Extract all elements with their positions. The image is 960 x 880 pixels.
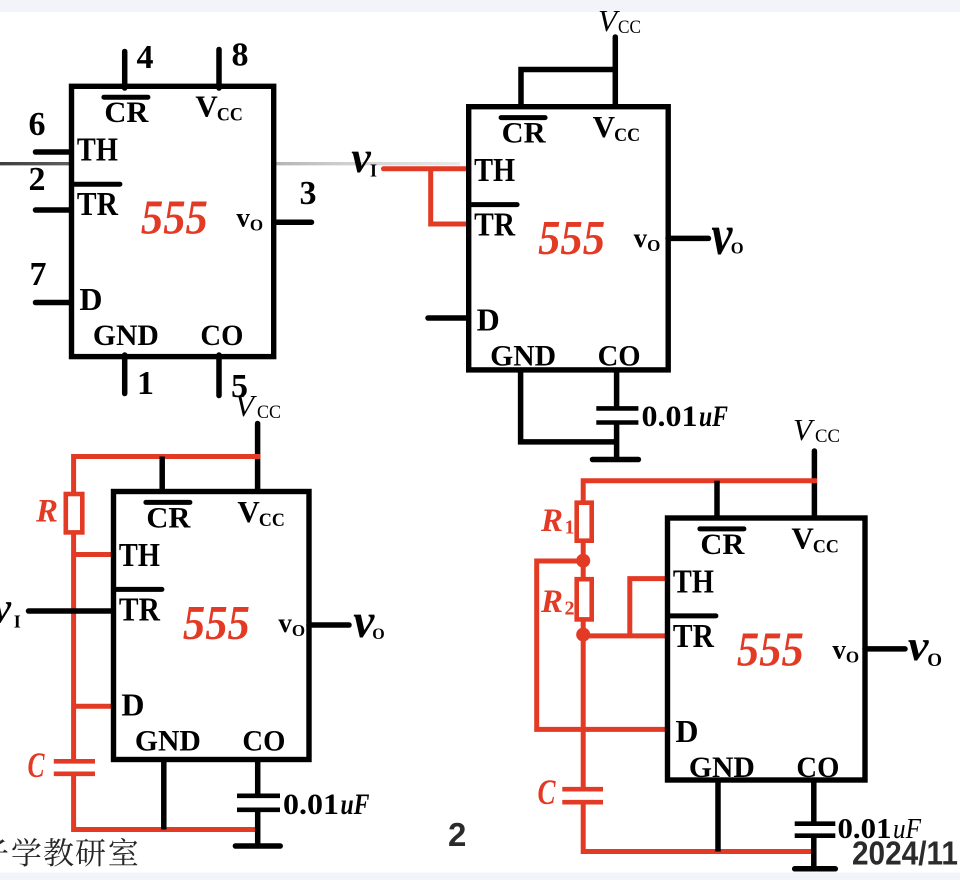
wire pin 6 stub U1 [36, 149, 72, 155]
svg-text:V: V [593, 109, 616, 144]
svg-text:TR: TR [673, 618, 714, 655]
wire gray callout line [0, 162, 460, 165]
pin label TR overline U2 [472, 202, 517, 207]
wire CO stub circuit 4 [811, 778, 817, 824]
input label vI circuit 2 [351, 133, 377, 182]
svg-text:C: C [538, 772, 557, 812]
svg-text:O: O [292, 621, 305, 640]
svg-text:TH: TH [673, 563, 714, 600]
wire pin 4 stub U1 [122, 52, 128, 89]
svg-text:555: 555 [538, 210, 605, 265]
resistor R circuit 3 [66, 494, 83, 532]
output label vO circuit 3 [353, 593, 385, 648]
svg-text:CR: CR [700, 528, 744, 561]
pin label TR U1 [77, 186, 118, 223]
pin label TH U2 [474, 152, 515, 189]
pin label GND U4 [689, 751, 755, 784]
wire pin 5 stub U1 [216, 355, 222, 396]
pin label CO U2 [598, 340, 641, 373]
value label 0.01uF circuit 2 [642, 400, 729, 433]
svg-text:GND: GND [135, 724, 201, 757]
pin label CR overline U1 [104, 95, 148, 100]
pin label TH U1 [77, 132, 118, 169]
svg-text:CO: CO [796, 751, 839, 784]
svg-text:V: V [195, 89, 218, 124]
svg-text:CR: CR [502, 117, 546, 150]
pin number 6 U1 [29, 106, 46, 143]
wire red R to C node circuit 3 [71, 532, 76, 761]
pin label D U1 [79, 281, 102, 317]
wire red TH input circuit 2 [384, 166, 469, 171]
wire GND down-left circuit 2 [521, 368, 617, 442]
power label VCC circuit 3 [235, 388, 281, 423]
svg-text:CC: CC [614, 125, 640, 146]
svg-text:V: V [235, 388, 257, 423]
svg-text:V: V [793, 412, 815, 447]
pin number 3 U1 [300, 175, 317, 212]
wire red node to C circuit 4 [581, 619, 586, 789]
pin label TH U3 [119, 537, 160, 574]
IC label 555 U4 [737, 621, 804, 676]
wire pin 7 stub U1 [36, 300, 72, 306]
resistor label R circuit 3 [35, 494, 58, 530]
wire VCC vertical circuit 3 [255, 424, 261, 495]
capacitor C circuit 4 [562, 789, 603, 802]
pin label vO U4 [832, 634, 859, 666]
input label vI circuit 3 [0, 584, 21, 633]
svg-text:O: O [731, 239, 744, 258]
pin label vO U3 [278, 608, 305, 640]
pin label TR overline U4 [670, 613, 716, 618]
wire output stub circuit 2 [668, 236, 709, 242]
pin label GND U2 [490, 340, 556, 373]
wire red node to D circuit 4 [537, 561, 667, 729]
wire VCC vertical circuit 4 [812, 451, 818, 520]
pin number 1 U1 [137, 365, 154, 402]
pin label VCC U1 [195, 89, 243, 126]
output label vO circuit 4 [908, 623, 942, 671]
svg-text:O: O [372, 626, 384, 643]
wire output stub circuit 4 [865, 646, 905, 652]
svg-text:V: V [237, 494, 260, 529]
pin label TR overline U3 [116, 587, 161, 592]
wire red D branch circuit 3 [74, 704, 113, 709]
pin label VCC U4 [791, 520, 839, 557]
junction node R1-R2 circuit 4 [576, 554, 590, 568]
wire output stub circuit 3 [309, 622, 349, 628]
wire red TH branch circuit 4 [630, 579, 667, 636]
svg-text:D: D [477, 302, 500, 338]
IC label 555 U3 [183, 595, 250, 650]
svg-text:V: V [598, 3, 620, 38]
pin label TR U2 [474, 207, 515, 244]
pin label CO U3 [242, 724, 285, 757]
svg-text:CO: CO [242, 724, 285, 757]
wire red TH branch circuit 3 [74, 552, 113, 557]
svg-text:v: v [236, 203, 250, 233]
svg-text:v: v [908, 623, 930, 670]
pin number 2 U1 [29, 161, 46, 198]
op-amp 555 IC box U2 [469, 107, 669, 370]
svg-text:555: 555 [141, 190, 208, 245]
svg-text:R: R [540, 584, 563, 620]
svg-text:2: 2 [565, 598, 575, 620]
pin label CR overline U2 [501, 115, 545, 120]
svg-text:O: O [647, 236, 660, 255]
wire GND stub circuit 4 [715, 778, 721, 852]
pin label TR overline U1 [74, 182, 120, 187]
ground circuit 4 [795, 866, 836, 872]
svg-text:TH: TH [119, 537, 160, 574]
wire VCC-CR bridge circuit 2 [521, 70, 615, 110]
pin label vO U1 [236, 203, 263, 235]
svg-text:O: O [846, 647, 859, 666]
svg-text:CC: CC [259, 510, 285, 531]
pin label TH U4 [673, 563, 714, 600]
pin label D U4 [675, 713, 698, 749]
op-amp 555 IC box U4 [668, 518, 866, 780]
svg-text:v: v [711, 204, 733, 267]
svg-text:3: 3 [300, 175, 317, 212]
svg-text:555: 555 [737, 621, 804, 676]
footer date 2024/11 [852, 835, 958, 872]
svg-text:8: 8 [232, 37, 249, 74]
op-amp 555 IC box U1 [72, 86, 274, 356]
pin label D U2 [477, 302, 500, 338]
resistor R2 circuit 4 [577, 579, 592, 619]
ground circuit 3 [235, 843, 280, 849]
power label VCC circuit 2 [598, 3, 641, 38]
wire CO stub circuit 3 [255, 757, 261, 796]
pin number 7 U1 [30, 256, 47, 293]
wire red C to ground circuit 3 [74, 774, 260, 830]
svg-text:6: 6 [29, 106, 46, 143]
svg-text:CC: CC [813, 536, 839, 557]
resistor R1 circuit 4 [577, 503, 592, 541]
svg-text:I: I [14, 612, 21, 632]
svg-text:TR: TR [77, 186, 118, 223]
svg-text:R: R [540, 503, 563, 539]
top page band [0, 0, 960, 12]
svg-text:0.01: 0.01 [642, 400, 698, 433]
pin number 4 U1 [137, 39, 154, 76]
pin label vO U2 [634, 223, 661, 255]
svg-text:D: D [121, 686, 144, 722]
pin label CR overline U4 [700, 526, 744, 531]
capacitor C circuit 3 [54, 761, 95, 774]
svg-text:CO: CO [598, 340, 641, 373]
svg-text:TH: TH [77, 132, 118, 169]
svg-text:CC: CC [257, 403, 281, 423]
svg-text:R: R [35, 494, 58, 530]
wire pin 3 stub U1 [274, 219, 312, 225]
output label vO circuit 2 [711, 204, 743, 267]
wire red VCC tap circuit 4 [583, 481, 817, 503]
svg-text:GND: GND [490, 340, 556, 373]
pin label VCC U2 [593, 109, 641, 146]
svg-text:7: 7 [30, 256, 47, 293]
svg-text:4: 4 [137, 39, 154, 76]
wire red C to ground circuit 4 [583, 802, 816, 851]
capacitor 0.01uF circuit 3 [237, 796, 280, 846]
pin label CR overline U3 [146, 500, 190, 505]
value label 0.01uF circuit 4 [838, 813, 922, 845]
capacitor label C circuit 4 [538, 772, 557, 812]
wire pin 2 stub U1 [36, 207, 72, 213]
pin number 8 U1 [232, 37, 249, 74]
capacitor label C circuit 3 [28, 745, 46, 785]
footer Chinese department text [0, 838, 137, 867]
ground circuit 2 [593, 457, 639, 463]
wire VCC vertical circuit 2 [613, 37, 619, 109]
pin label D U3 [121, 686, 144, 722]
pin label CO U4 [796, 751, 839, 784]
wire pin 1 stub U1 [122, 355, 128, 394]
wire vI input circuit 3 [29, 608, 114, 614]
svg-text:O: O [927, 650, 942, 671]
wire GND stub circuit 3 [161, 757, 167, 830]
IC label 555 U1 [141, 190, 208, 245]
svg-text:C: C [28, 745, 46, 785]
wire red R1-R2 circuit 4 [581, 541, 586, 580]
resistor label R1 circuit 4 [540, 503, 575, 539]
svg-text:CC: CC [217, 105, 243, 126]
svg-text:GND: GND [93, 319, 159, 352]
wire CR stub circuit 3 [159, 457, 165, 495]
pin label GND U3 [135, 724, 201, 757]
value label 0.01uF circuit 3 [283, 788, 370, 821]
pin label CO U1 [200, 319, 243, 352]
svg-text:CC: CC [618, 18, 641, 38]
svg-text:2: 2 [29, 161, 46, 198]
svg-text:v: v [634, 223, 648, 253]
svg-text:TH: TH [474, 152, 515, 189]
svg-text:2: 2 [448, 816, 466, 853]
svg-text:D: D [675, 713, 698, 749]
svg-text:D: D [79, 281, 102, 317]
svg-text:CO: CO [200, 319, 243, 352]
resistor label R2 circuit 4 [540, 584, 575, 620]
capacitor 0.01uF circuit 4 [795, 824, 836, 869]
pin label CR U3 [146, 501, 190, 534]
pin label CR U1 [104, 96, 148, 129]
capacitor 0.01uF circuit 2 [596, 408, 638, 459]
IC label 555 U2 [538, 210, 605, 265]
wire CO stub circuit 2 [614, 368, 620, 408]
junction node R2-C circuit 4 [576, 628, 590, 642]
svg-text:uF: uF [341, 788, 370, 821]
svg-text:TR: TR [119, 591, 160, 628]
svg-text:555: 555 [183, 595, 250, 650]
pin label VCC U3 [237, 494, 285, 531]
svg-text:TR: TR [474, 207, 515, 244]
wire D stub circuit 2 [428, 315, 468, 321]
svg-text:2024/11: 2024/11 [852, 835, 958, 872]
svg-text:v: v [0, 584, 11, 633]
svg-text:1: 1 [565, 517, 575, 539]
svg-text:CR: CR [146, 501, 190, 534]
svg-text:0.01: 0.01 [283, 788, 339, 821]
power label VCC circuit 4 [793, 412, 840, 447]
svg-text:GND: GND [689, 751, 755, 784]
svg-text:O: O [250, 216, 263, 235]
pin label GND U1 [93, 319, 159, 352]
wire pin 8 stub U1 [216, 50, 222, 89]
pin label CR U4 [700, 528, 744, 561]
op-amp 555 IC box U3 [114, 492, 310, 760]
bottom page band [0, 873, 960, 880]
svg-text:CR: CR [104, 96, 148, 129]
pin label CR U2 [502, 117, 546, 150]
pin label TR U4 [673, 618, 714, 655]
svg-text:CC: CC [815, 427, 840, 447]
wire red VCC tap circuit 3 [74, 457, 261, 495]
pin number 5 U1 [231, 368, 248, 405]
pin label TR U3 [119, 591, 160, 628]
wire red TR branch circuit 4 [583, 633, 667, 638]
svg-text:v: v [278, 608, 292, 638]
svg-text:V: V [791, 520, 814, 555]
footer page number 2 [448, 816, 466, 853]
svg-text:I: I [370, 161, 377, 181]
svg-text:uF: uF [699, 400, 728, 433]
svg-text:1: 1 [137, 365, 154, 402]
svg-text:v: v [351, 133, 371, 182]
wire red TH-TR link circuit 2 [431, 169, 468, 224]
svg-text:v: v [832, 634, 846, 664]
wire CR stub circuit 4 [714, 481, 720, 520]
